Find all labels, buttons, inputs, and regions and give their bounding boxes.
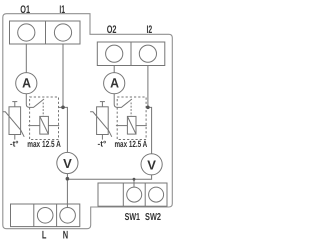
svg-text:O1: O1 [20,4,30,16]
svg-text:V: V [63,156,72,171]
svg-text:A: A [110,76,119,91]
svg-text:SW1: SW1 [125,212,141,223]
svg-text:-t°: -t° [98,140,107,149]
svg-text:max 12.5 A: max 12.5 A [114,139,147,149]
svg-text:N: N [63,230,68,240]
svg-text:L: L [42,230,47,240]
svg-text:O2: O2 [107,24,117,36]
svg-text:A: A [22,76,31,91]
svg-text:I1: I1 [59,4,65,16]
svg-text:SW2: SW2 [145,212,161,223]
svg-text:V: V [147,157,156,172]
svg-text:-t°: -t° [10,140,19,149]
svg-text:max 12.5 A: max 12.5 A [27,139,61,149]
svg-text:I2: I2 [146,24,152,36]
